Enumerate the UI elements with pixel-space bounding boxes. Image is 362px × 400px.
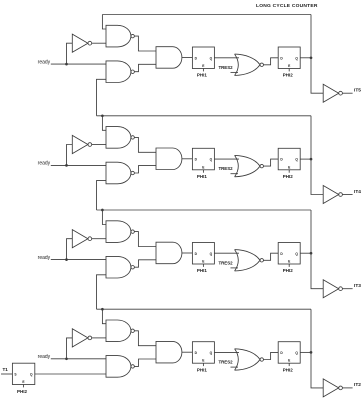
wire T1 input <box>1 373 12 375</box>
pin clock stub PH1 row1 <box>202 69 204 72</box>
svg-text:E: E <box>202 260 205 264</box>
node ready junction row3 <box>65 258 68 261</box>
wire feedback bus vertical row2 <box>311 116 323 195</box>
latch PH1 row4 <box>192 342 214 364</box>
NAND gate lower row4 <box>106 356 131 378</box>
NAND gate lower row1 <box>106 61 131 83</box>
svg-text:Q: Q <box>210 56 213 60</box>
svg-text:PHI1: PHI1 <box>197 268 208 273</box>
pin clock stub T1 <box>23 385 25 388</box>
svg-text:D: D <box>280 252 283 256</box>
wire inverter output row4 <box>92 337 106 339</box>
wire IT4 output row2 <box>342 194 352 196</box>
wire ready row3 <box>51 259 106 261</box>
wire ready row2 <box>51 164 106 166</box>
wire T1 output to NAND lower input row4 <box>35 373 106 375</box>
latch PH2 row1 <box>278 47 300 69</box>
pin clock stub PH2 row4 <box>288 363 290 366</box>
svg-text:TRES2: TRES2 <box>218 166 233 171</box>
svg-text:Q: Q <box>210 158 213 162</box>
svg-text:E: E <box>202 359 205 363</box>
svg-text:D: D <box>195 56 198 60</box>
svg-text:E: E <box>202 64 205 68</box>
wire feedback drop to NAND top input row3 <box>102 210 106 225</box>
svg-text:IT2: IT2 <box>354 382 361 388</box>
wire AND output row2 <box>182 158 193 160</box>
inverter row2 <box>72 135 88 153</box>
svg-text:Q: Q <box>295 158 298 162</box>
svg-text:LONG CYCLE COUNTER: LONG CYCLE COUNTER <box>256 3 318 9</box>
wire TRES2 stub row2 <box>231 173 239 175</box>
wire ready to inverter input row3 <box>67 239 73 260</box>
AND gate row3 <box>156 242 182 264</box>
wire carry up to row3 NAND lower input <box>97 275 107 309</box>
svg-text:ready: ready <box>38 59 51 65</box>
svg-text:D: D <box>280 351 283 355</box>
wire carry up to row1 NAND lower input <box>97 79 107 116</box>
pin clock stub PH1 row4 <box>202 363 204 366</box>
wire feedback drop to NAND top input row1 <box>102 15 106 30</box>
svg-text:D: D <box>195 252 198 256</box>
wire feedback row2 top horizontal <box>97 115 312 117</box>
wire NOR output row4 <box>264 352 279 359</box>
inverter output buffer IT3 row3 <box>323 280 339 298</box>
wire feedback row4 top horizontal <box>97 308 312 310</box>
svg-text:Q: Q <box>295 56 298 60</box>
pin clock stub PH1 row3 <box>202 264 204 267</box>
node PH2 output junction row1 <box>310 56 313 59</box>
node feedback junction row2 <box>101 114 104 117</box>
pin clock stub PH2 row2 <box>288 170 290 173</box>
inverter output buffer IT5 row1 <box>323 84 339 102</box>
wire AND output row1 <box>182 57 193 59</box>
wire feedback drop to NAND top input row4 <box>102 309 106 324</box>
svg-text:IT5: IT5 <box>354 88 361 94</box>
svg-text:PHI2: PHI2 <box>17 389 28 394</box>
wire feedback row1 top horizontal <box>102 14 311 16</box>
node feedback junction row3 <box>101 209 104 212</box>
svg-text:T1: T1 <box>3 367 9 372</box>
inverter output buffer IT2 row4 <box>323 379 339 397</box>
pin clock stub PH2 row1 <box>288 69 290 72</box>
wire IT3 output row3 <box>342 288 352 290</box>
wire NAND lower output row2 <box>134 166 156 173</box>
latch PH1 row1 <box>192 47 214 69</box>
latch PH2 row4 <box>278 342 300 364</box>
wire AND output row4 <box>182 351 193 353</box>
wire TRES2 stub row1 <box>231 71 239 73</box>
AND gate row2 <box>156 148 182 170</box>
svg-text:Q: Q <box>210 252 213 256</box>
svg-text:D: D <box>195 351 198 355</box>
wire feedback bus vertical row4 <box>311 309 323 388</box>
wire PH2 output row4 <box>300 351 311 353</box>
wire TRES2 stub row4 <box>231 366 239 368</box>
svg-text:E: E <box>288 359 291 363</box>
inverter row4 <box>72 329 88 347</box>
wire NAND upper output row2 <box>134 137 156 152</box>
svg-text:S: S <box>14 373 17 377</box>
NOR gate row1 <box>235 54 239 75</box>
svg-text:ready: ready <box>38 255 51 261</box>
svg-text:ready: ready <box>38 161 51 167</box>
svg-text:Q: Q <box>295 351 298 355</box>
svg-text:IT3: IT3 <box>354 283 361 289</box>
node feedback junction row4 <box>101 308 104 311</box>
inverter row3 <box>72 230 88 248</box>
svg-text:PHI2: PHI2 <box>283 367 294 372</box>
wire PH1 output to NOR row1 <box>214 57 239 59</box>
AND gate row4 <box>156 341 182 363</box>
wire ready to inverter input row2 <box>67 145 73 166</box>
pin clock stub PH1 row2 <box>202 170 204 173</box>
pin clock stub PH2 row3 <box>288 264 290 267</box>
latch PH1 row3 <box>192 243 214 265</box>
NAND gate lower row3 <box>106 256 131 278</box>
wire AND output row3 <box>182 252 193 254</box>
svg-text:PHI2: PHI2 <box>283 268 294 273</box>
svg-text:Q: Q <box>295 252 298 256</box>
svg-text:E: E <box>22 380 25 384</box>
node ready junction row1 <box>65 63 68 66</box>
svg-text:D: D <box>280 56 283 60</box>
latch PH2 row2 <box>278 148 300 170</box>
wire NAND lower output row4 <box>134 359 156 366</box>
NOR gate row2 <box>235 155 239 176</box>
wire carry up to row2 NAND lower input <box>97 181 107 210</box>
wire PH1 output to NOR row3 <box>214 252 239 254</box>
wire feedback bus vertical row1 <box>311 15 323 94</box>
wire PH2 output row3 <box>300 252 311 254</box>
wire NAND lower output row3 <box>134 260 156 267</box>
svg-text:PHI1: PHI1 <box>197 73 208 78</box>
wire feedback row3 top horizontal <box>97 209 312 211</box>
wire IT5 output row1 <box>342 92 352 94</box>
wire PH2 output row2 <box>300 158 311 160</box>
wire NAND upper output row1 <box>134 36 156 51</box>
svg-text:TRES2: TRES2 <box>218 360 233 365</box>
svg-text:PHI2: PHI2 <box>283 174 294 179</box>
svg-text:E: E <box>288 260 291 264</box>
wire ready to inverter input row4 <box>67 338 73 359</box>
svg-text:E: E <box>202 165 205 169</box>
svg-text:E: E <box>288 64 291 68</box>
wire NOR output row1 <box>264 58 279 65</box>
wire inverter output row1 <box>92 42 106 44</box>
svg-text:PHI1: PHI1 <box>197 174 208 179</box>
NOR gate row3 <box>235 250 239 271</box>
svg-text:D: D <box>280 158 283 162</box>
inverter row1 <box>72 34 88 52</box>
wire NAND upper output row3 <box>134 232 156 247</box>
NAND gate lower row2 <box>106 162 131 184</box>
node ready junction row4 <box>65 357 68 360</box>
node ready junction row2 <box>65 164 68 167</box>
wire NOR output row3 <box>264 253 279 260</box>
wire feedback bus vertical row3 <box>311 210 323 289</box>
NOR gate row4 <box>235 349 239 370</box>
wire NAND lower output row1 <box>134 64 156 71</box>
svg-text:TRES2: TRES2 <box>218 260 233 265</box>
wire NAND upper output row4 <box>134 331 156 346</box>
wire PH1 output to NOR row4 <box>214 351 239 353</box>
svg-text:PHI2: PHI2 <box>283 73 294 78</box>
node PH2 output junction row4 <box>310 351 313 354</box>
svg-text:PHI1: PHI1 <box>197 367 208 372</box>
wire TRES2 stub row3 <box>231 267 239 269</box>
AND gate row1 <box>156 47 182 68</box>
NAND gate upper row2 <box>106 127 131 149</box>
wire inverter output row2 <box>92 144 106 146</box>
svg-text:E: E <box>288 165 291 169</box>
node PH2 output junction row3 <box>310 252 313 255</box>
NAND gate upper row4 <box>106 320 131 342</box>
inverter output buffer IT4 row2 <box>323 186 339 204</box>
wire ready row1 <box>51 63 106 65</box>
svg-text:Q: Q <box>30 373 33 377</box>
wire NOR output row2 <box>264 159 279 166</box>
latch T1 (PH2) <box>12 363 34 384</box>
wire ready to inverter input row1 <box>67 43 73 64</box>
svg-text:D: D <box>195 158 198 162</box>
svg-text:Q: Q <box>210 351 213 355</box>
svg-text:ready: ready <box>38 354 51 360</box>
NAND gate upper row1 <box>106 25 131 47</box>
svg-text:TRES2: TRES2 <box>218 65 233 70</box>
latch PH2 row3 <box>278 243 300 265</box>
wire PH1 output to NOR row2 <box>214 158 239 160</box>
wire PH2 output row1 <box>300 57 311 59</box>
latch PH1 row2 <box>192 148 214 170</box>
svg-text:IT4: IT4 <box>354 189 361 195</box>
wire inverter output row3 <box>92 238 106 240</box>
wire ready row4 <box>51 358 106 360</box>
node PH2 output junction row2 <box>310 158 313 161</box>
wire IT2 output row4 <box>342 387 352 389</box>
NAND gate upper row3 <box>106 221 131 243</box>
wire feedback drop to NAND top input row2 <box>102 116 106 131</box>
